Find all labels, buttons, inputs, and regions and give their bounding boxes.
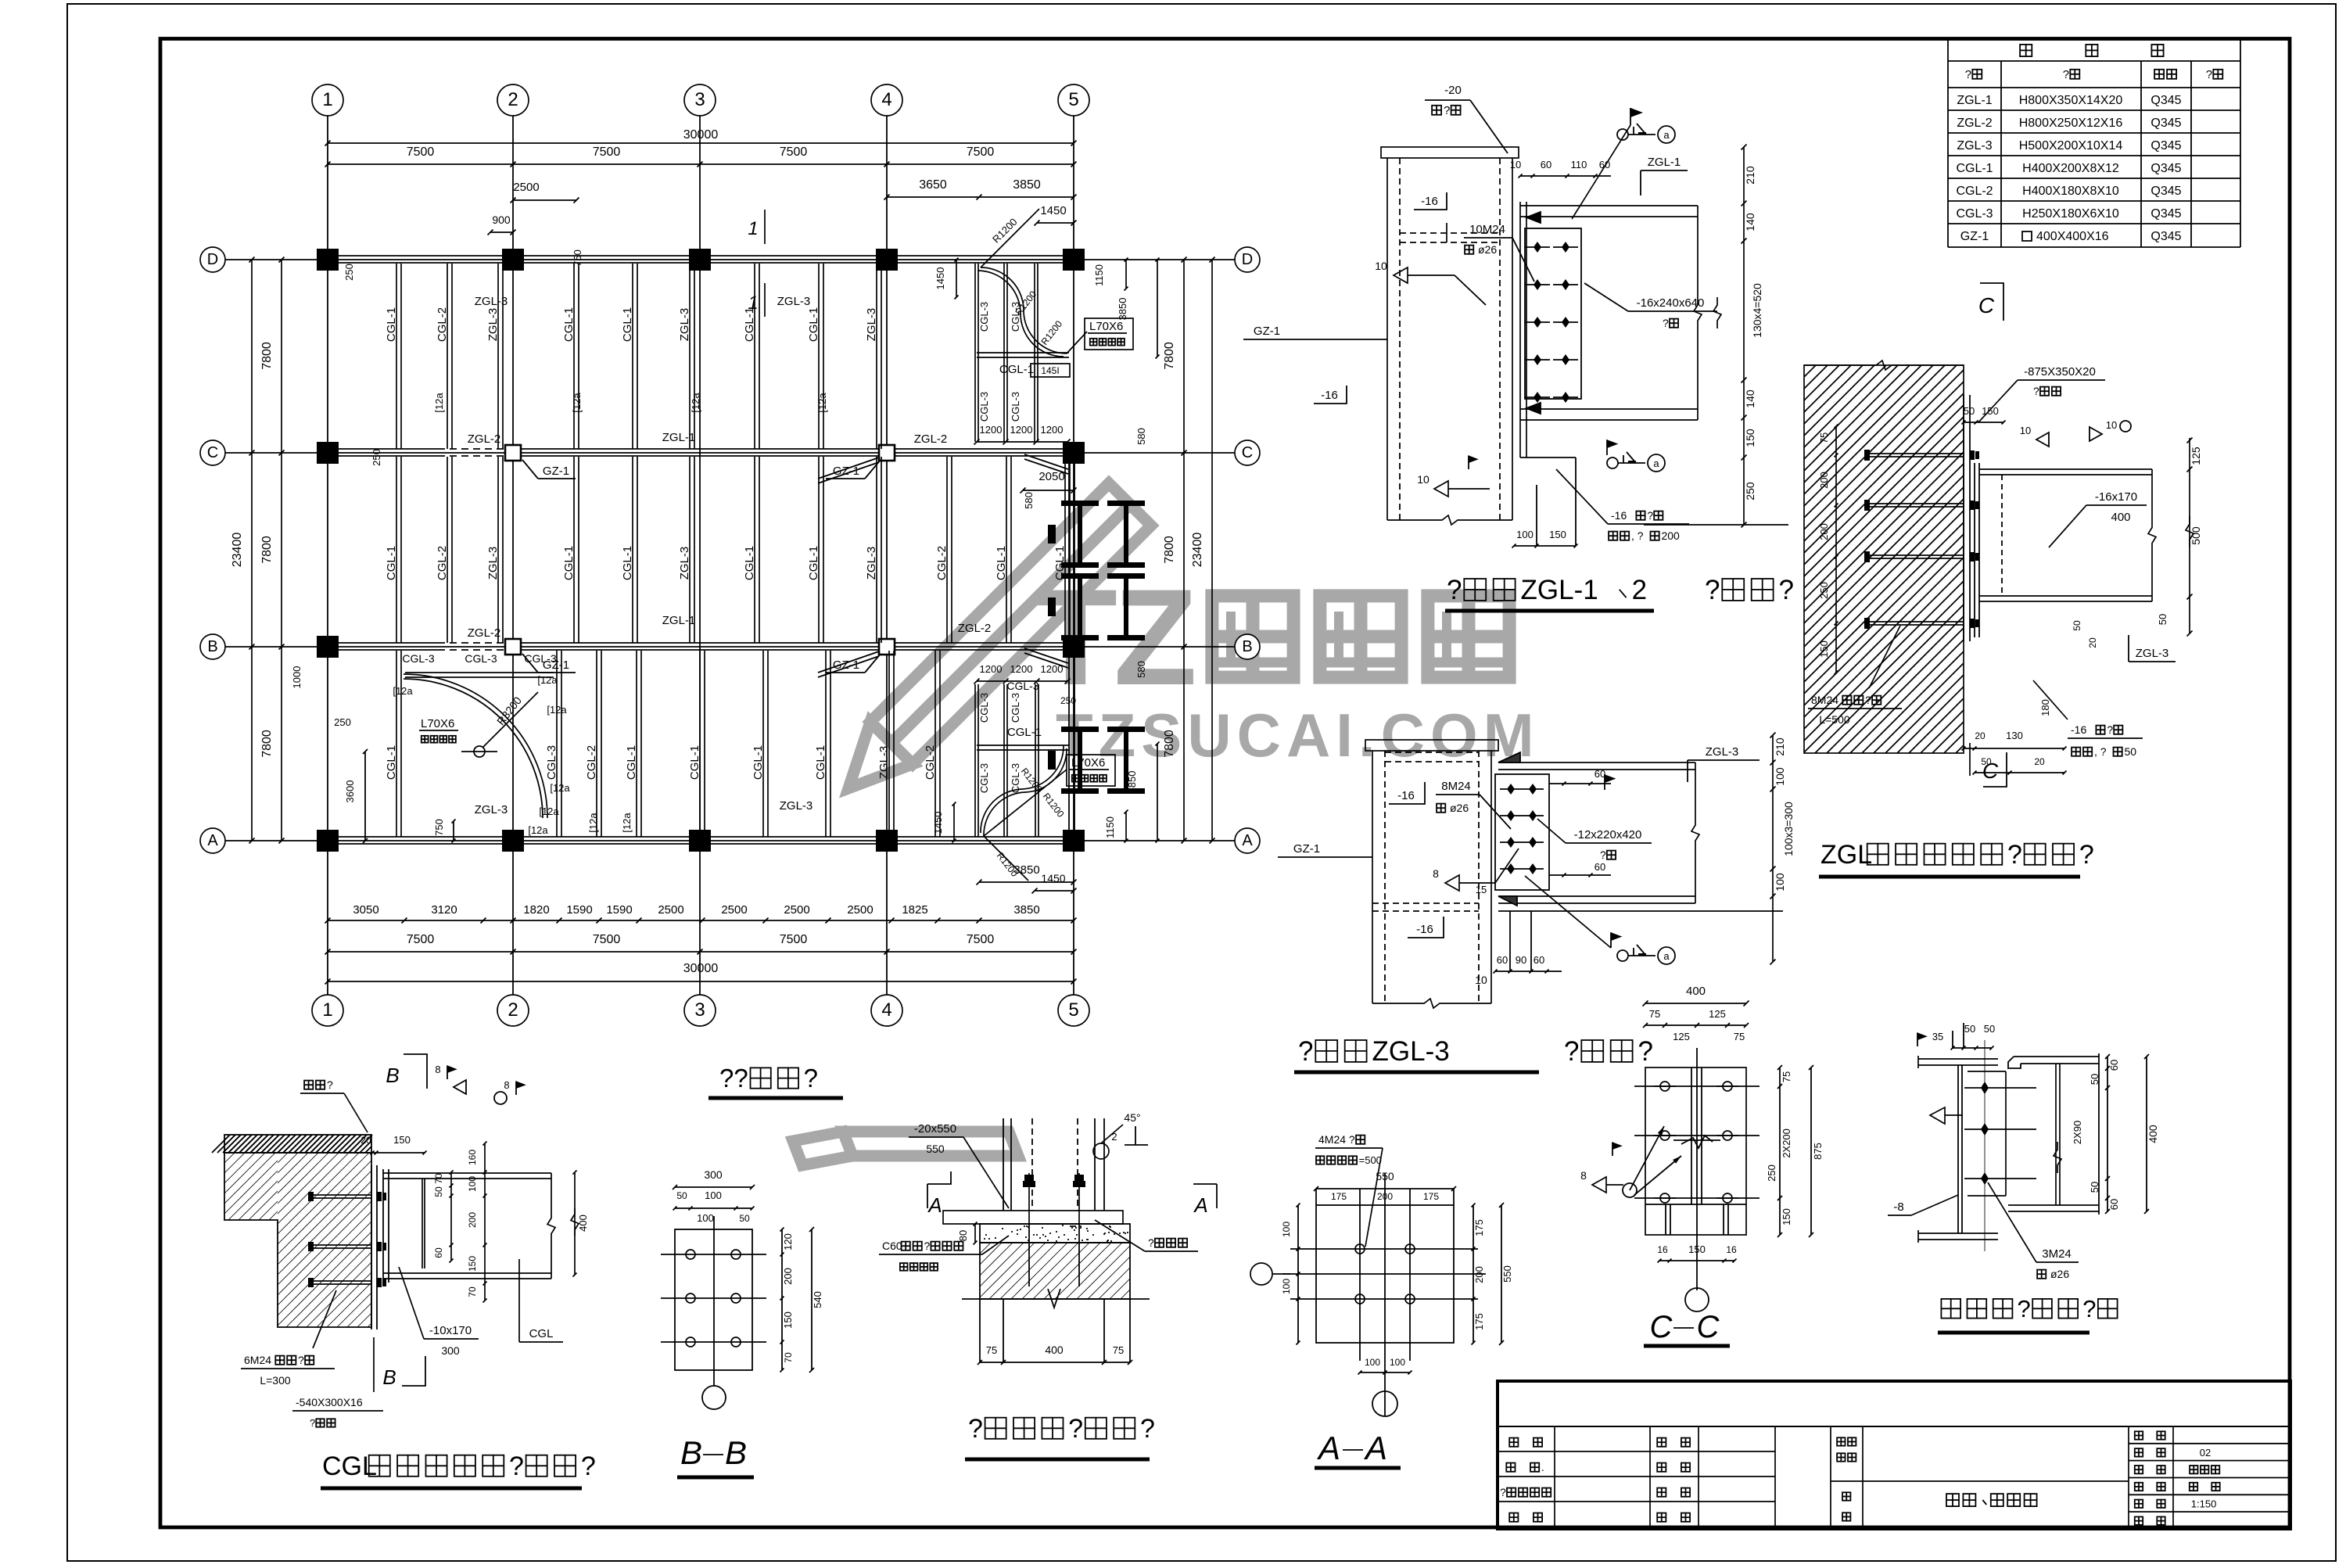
right edge connecting lines [1068, 457, 1070, 837]
D9 bolts [1355, 1244, 1365, 1254]
D9 bottom dims 100 100 [1360, 1372, 1410, 1373]
svg-text:200: 200 [467, 1212, 478, 1228]
svg-text:50: 50 [2072, 620, 2082, 631]
bottom dims 7500 [328, 951, 1074, 953]
title block drawing name [1946, 1494, 1959, 1506]
svg-text:-875X350X20: -875X350X20 [2024, 365, 2096, 379]
axis bubbles bottom 1-5 [312, 995, 343, 1026]
svg-text:CGL-3: CGL-3 [1956, 207, 1993, 221]
svg-text:1825: 1825 [902, 903, 927, 917]
svg-text:60: 60 [2108, 1060, 2120, 1071]
svg-text:ø26: ø26 [2050, 1268, 2069, 1280]
svg-text:-16: -16 [1416, 923, 1433, 936]
svg-text:ZGL-3: ZGL-3 [1957, 139, 1992, 152]
svg-text:A: A [1316, 1430, 1340, 1466]
svg-text:CGL-1: CGL-1 [752, 745, 765, 780]
svg-text:2: 2 [1632, 575, 1647, 605]
D9 right dims [1473, 1205, 1474, 1343]
svg-text:?: ? [2033, 385, 2039, 397]
svg-text:3050: 3050 [353, 903, 378, 917]
svg-text:1200: 1200 [1041, 424, 1064, 436]
svg-text:ZGL-2: ZGL-2 [914, 432, 948, 446]
watermark logo pencil [793, 483, 1151, 1165]
svg-text:CGL-2: CGL-2 [935, 546, 949, 580]
svg-text:CGL-1: CGL-1 [807, 307, 820, 342]
D1 top small dims [1520, 175, 1611, 177]
D5 main beam bottom flange [1918, 1233, 1998, 1234]
svg-text:2: 2 [508, 999, 518, 1021]
D3 concrete column hatched [1804, 365, 1964, 753]
D6 anchor bolts [313, 1194, 371, 1196]
D5 weld flag top [1917, 1032, 1918, 1046]
svg-text:?: ? [298, 1354, 304, 1366]
svg-text:8: 8 [1433, 867, 1439, 880]
D6 dim 400 [574, 1172, 576, 1275]
svg-text:110: 110 [1571, 159, 1587, 170]
svg-text:-20: -20 [1444, 84, 1462, 97]
svg-text:1200: 1200 [1010, 424, 1033, 436]
D6 labels [304, 1081, 313, 1089]
svg-text:?: ? [327, 1078, 333, 1091]
D2 column body [1372, 751, 1373, 1003]
axis bubbles top 1-5 [312, 84, 343, 116]
svg-text:300: 300 [441, 1344, 460, 1357]
svg-text:ZGL-1: ZGL-1 [1648, 156, 1681, 169]
svg-text:ZGL-2: ZGL-2 [958, 622, 992, 635]
watermark CJK chars [1212, 596, 1293, 677]
svg-text:150: 150 [1982, 405, 1999, 417]
svg-text:7500: 7500 [780, 933, 808, 946]
svg-text:50: 50 [676, 1190, 687, 1201]
svg-text:50: 50 [2124, 745, 2136, 758]
svg-text:10M24: 10M24 [1469, 223, 1505, 236]
svg-text:20: 20 [2087, 637, 2098, 648]
svg-text:7800: 7800 [260, 342, 274, 370]
svg-text:CGL-3: CGL-3 [545, 745, 558, 780]
svg-text:150: 150 [782, 1311, 794, 1329]
svg-text:7800: 7800 [1163, 342, 1176, 370]
dims 1200x3 upper [977, 441, 1067, 443]
D9 bottom circle [1372, 1391, 1397, 1416]
D9 axis lines [1384, 1173, 1386, 1416]
D1 weld flag top [1630, 108, 1631, 125]
D8 bolts into concrete [1028, 1224, 1030, 1286]
svg-text:?: ? [2018, 1295, 2031, 1322]
svg-text:R1200: R1200 [1038, 318, 1064, 347]
svg-text:1: 1 [748, 218, 758, 239]
svg-text:A: A [1363, 1430, 1387, 1466]
svg-text:[12a: [12a [550, 782, 570, 794]
svg-text:580: 580 [1023, 492, 1035, 509]
svg-text:CGL-3: CGL-3 [978, 763, 990, 793]
svg-text:ZGL-3: ZGL-3 [780, 799, 813, 813]
svg-text:GZ-1: GZ-1 [1960, 230, 1989, 243]
svg-text:CGL-2: CGL-2 [585, 745, 598, 780]
svg-text:CGL-1: CGL-1 [999, 363, 1034, 376]
svg-text:ZGL-1: ZGL-1 [1957, 94, 1992, 107]
svg-text:100: 100 [1281, 1279, 1292, 1294]
svg-text:[12a: [12a [528, 824, 548, 836]
svg-text:[12a: [12a [690, 393, 701, 413]
svg-text:D: D [1242, 251, 1253, 268]
svg-text:?: ? [1779, 575, 1794, 605]
svg-text:-20x550: -20x550 [914, 1122, 956, 1136]
D2 splice plate [1495, 774, 1549, 890]
svg-text:20: 20 [361, 1135, 371, 1146]
svg-text:, ?: , ? [1631, 529, 1644, 542]
title block middle cols [1830, 1426, 1831, 1529]
svg-text:02: 02 [2200, 1447, 2211, 1459]
svg-text:1450: 1450 [932, 812, 944, 834]
svg-text:2500: 2500 [847, 903, 873, 917]
D7 bolts [686, 1250, 695, 1259]
svg-text:A: A [1193, 1193, 1207, 1217]
svg-text:L70X6: L70X6 [1071, 756, 1105, 770]
svg-text:200: 200 [1377, 1191, 1393, 1202]
svg-text:1150: 1150 [1104, 816, 1116, 838]
svg-text:250: 250 [343, 264, 355, 281]
svg-text:90: 90 [1516, 954, 1526, 966]
svg-text:C: C [207, 444, 218, 461]
D2 weld flag bottom right [1610, 932, 1612, 948]
material table [1947, 40, 1949, 247]
svg-text:7800: 7800 [260, 730, 274, 758]
svg-text:A: A [1242, 832, 1253, 849]
title block outer [1498, 1381, 2290, 1529]
svg-text:200: 200 [1818, 472, 1830, 489]
right edge I columns [1061, 501, 1099, 506]
CGL-3 stub beam under row B left bay [405, 672, 554, 673]
svg-text:CGL-1: CGL-1 [562, 546, 576, 580]
svg-text:D: D [207, 251, 218, 268]
D1 column cap plate [1381, 147, 1519, 158]
D5 secondary beam web [2055, 1064, 2057, 1205]
svg-text:140: 140 [1744, 389, 1756, 408]
svg-text:175: 175 [1331, 1191, 1347, 1202]
svg-text:?: ? [1600, 849, 1606, 861]
D3 dims bottom [1969, 743, 1971, 776]
axis bubbles right D C B A [1235, 247, 1260, 272]
svg-text:C: C [1650, 1310, 1673, 1344]
top dim 30000 [328, 142, 1074, 144]
D6 finish hatch layer [224, 1135, 371, 1153]
D8 dim 80 [974, 1224, 976, 1243]
svg-text:ZGL: ZGL [1820, 840, 1872, 870]
svg-text:1150: 1150 [1093, 264, 1105, 286]
svg-text:-16x240x640: -16x240x640 [1637, 296, 1705, 310]
svg-text:1450: 1450 [934, 267, 946, 290]
svg-text:C: C [1697, 1310, 1720, 1344]
D8 concrete block [980, 1243, 1130, 1299]
svg-text:[12a: [12a [433, 393, 445, 413]
svg-text:CGL-1: CGL-1 [1956, 162, 1993, 175]
D2 weld hatch marks [1498, 752, 1520, 762]
D5 top dims 35 50 50 [1953, 1047, 1992, 1049]
svg-text:ZGL-3: ZGL-3 [1372, 1036, 1450, 1067]
svg-text:7500: 7500 [593, 933, 621, 946]
svg-text:CGL-3: CGL-3 [1010, 302, 1021, 332]
svg-text:75: 75 [1113, 1344, 1124, 1356]
svg-text:H400X200X8X12: H400X200X8X12 [2022, 162, 2119, 175]
svg-text:[12a: [12a [816, 393, 828, 413]
dim 3600 vertical [364, 752, 366, 841]
svg-text:50: 50 [433, 1186, 444, 1197]
D5 cleat angle [1968, 1071, 2006, 1072]
svg-text:140: 140 [1744, 213, 1756, 231]
D4 bottom circle [1685, 1288, 1709, 1311]
svg-text:5: 5 [1068, 999, 1078, 1021]
D2 stiffener dashed upper [1385, 752, 1479, 753]
svg-text:?: ? [1638, 1036, 1653, 1067]
svg-text:ZGL-3: ZGL-3 [877, 746, 891, 780]
svg-text:75: 75 [1781, 1071, 1792, 1082]
S curve bottom-right [984, 748, 1067, 836]
svg-text:250: 250 [1766, 1164, 1777, 1182]
svg-text:3120: 3120 [431, 903, 457, 917]
D5 secondary beam bottom flange [2008, 1204, 2099, 1206]
title block top band line [1498, 1426, 2290, 1427]
D4 bottom dims [1659, 1260, 1734, 1261]
svg-text:1000: 1000 [291, 666, 303, 689]
svg-text:100: 100 [1774, 873, 1786, 892]
D3 break top [1804, 361, 1964, 370]
D4 inner web lines [1691, 1067, 1692, 1204]
top dim 2500 [513, 199, 576, 201]
svg-text:CGL-1: CGL-1 [743, 546, 756, 580]
svg-text:210: 210 [1744, 166, 1756, 185]
svg-text:ZGL-3: ZGL-3 [865, 547, 878, 580]
D4 break sym [1681, 1136, 1713, 1148]
svg-text:CGL-3: CGL-3 [1010, 392, 1021, 422]
svg-text:75: 75 [986, 1344, 997, 1356]
bottom dim 30000 [328, 981, 1074, 982]
svg-text:1450: 1450 [1040, 204, 1066, 217]
svg-text:2X90: 2X90 [2072, 1121, 2083, 1144]
top dim 900 [490, 231, 513, 233]
svg-text:?: ? [1500, 1486, 1506, 1498]
ZGL-2 dashed beam segments near axis2 [438, 447, 505, 460]
svg-text:R1200: R1200 [990, 216, 1020, 246]
svg-text:1:150: 1:150 [2191, 1498, 2217, 1509]
svg-text:7800: 7800 [1163, 536, 1176, 564]
svg-text:[12a: [12a [621, 813, 633, 833]
svg-text:[12a: [12a [587, 813, 599, 833]
svg-text:ø26: ø26 [1450, 802, 1469, 814]
D5 right dims outer [2146, 1057, 2147, 1211]
svg-text:400: 400 [2147, 1125, 2159, 1143]
svg-text:400: 400 [2111, 511, 2130, 524]
title block left col lines [1554, 1426, 1555, 1529]
svg-text:?: ? [2063, 68, 2069, 81]
svg-text:CGL-3: CGL-3 [465, 652, 497, 665]
svg-text:CGL-1: CGL-1 [807, 546, 820, 580]
svg-text:?: ? [1140, 1414, 1155, 1444]
svg-text:120: 120 [782, 1233, 794, 1250]
svg-text:60: 60 [1594, 861, 1605, 873]
svg-text:130x4=520: 130x4=520 [1751, 283, 1763, 338]
plan arc R3200 [404, 674, 547, 818]
svg-text:-10x170: -10x170 [429, 1324, 472, 1337]
svg-text:30000: 30000 [683, 128, 719, 142]
D8 bottom dims [980, 1362, 1130, 1363]
D9 top dim 550 [1316, 1188, 1454, 1189]
svg-text:ZGL-1: ZGL-1 [1521, 575, 1598, 605]
svg-text:175: 175 [1473, 1313, 1485, 1330]
svg-text:GZ-1: GZ-1 [833, 658, 859, 672]
svg-text:CGL-3: CGL-3 [978, 302, 990, 332]
top dims 3650 3850 [887, 196, 1074, 198]
svg-text:?: ? [1647, 509, 1653, 522]
svg-text:3600: 3600 [344, 780, 356, 803]
svg-text:23400: 23400 [231, 533, 244, 568]
D5 right dims inner [2107, 1057, 2108, 1211]
svg-text:8: 8 [504, 1079, 509, 1091]
svg-text:Q345: Q345 [2150, 117, 2181, 130]
svg-text:ZGL-1: ZGL-1 [662, 614, 696, 627]
D6 beam CGL [383, 1172, 551, 1174]
svg-text:125: 125 [1709, 1008, 1726, 1020]
svg-text:CGL-3: CGL-3 [1006, 680, 1038, 692]
svg-text:70: 70 [433, 1173, 444, 1184]
bottom dim 1450 3850 [979, 881, 1074, 883]
svg-text:875: 875 [1812, 1143, 1824, 1160]
D1 bolts [1534, 242, 1541, 253]
D9 A-A plate square [1316, 1205, 1454, 1343]
svg-text:-16: -16 [1421, 195, 1438, 208]
svg-text:H400X180X8X10: H400X180X8X10 [2022, 185, 2119, 198]
svg-text:200: 200 [1473, 1266, 1485, 1283]
svg-text:175: 175 [1423, 1191, 1439, 1202]
D1 splice plate [1525, 228, 1581, 399]
svg-text:?: ? [509, 1451, 524, 1481]
D8 grout layer dots [980, 1224, 1130, 1243]
svg-text:60: 60 [2108, 1199, 2120, 1210]
svg-text:ZGL-3: ZGL-3 [678, 547, 691, 580]
svg-text:3650: 3650 [919, 178, 947, 192]
svg-text:60: 60 [433, 1247, 444, 1258]
svg-text:100: 100 [705, 1189, 722, 1201]
svg-text:1590: 1590 [566, 903, 592, 917]
GZ-1 small squares [505, 445, 521, 461]
cross beam CGL-1 top-right bay [977, 352, 1069, 353]
svg-text:CGL-1: CGL-1 [385, 307, 398, 342]
svg-text:?: ? [1965, 68, 1971, 81]
svg-text:7800: 7800 [1163, 730, 1176, 758]
S curve top-right [981, 267, 1067, 353]
svg-text:a: a [1653, 457, 1659, 469]
svg-text:50: 50 [1964, 1023, 1975, 1035]
svg-text:ZGL-3: ZGL-3 [486, 547, 500, 580]
svg-text:?: ? [1068, 1414, 1083, 1444]
svg-text:23400: 23400 [1191, 533, 1204, 568]
svg-text:150: 150 [467, 1256, 478, 1272]
svg-text:100: 100 [1774, 767, 1786, 786]
svg-text:Q345: Q345 [2150, 185, 2181, 198]
svg-text:1450: 1450 [1041, 872, 1065, 884]
svg-text:[12a: [12a [537, 674, 558, 686]
D1 column body [1386, 158, 1388, 520]
svg-text:160: 160 [467, 1150, 478, 1165]
svg-text:10: 10 [2020, 425, 2031, 436]
svg-text:150: 150 [1744, 429, 1756, 447]
svg-text:20: 20 [2034, 756, 2045, 767]
svg-text:150: 150 [1549, 529, 1566, 540]
svg-text:60: 60 [1497, 954, 1508, 966]
D6 dims right inner [450, 1172, 452, 1261]
cross beam CGL-1 bottom-right bay [977, 745, 1069, 746]
svg-text:?: ? [924, 1240, 930, 1252]
svg-text:250: 250 [1744, 482, 1756, 501]
svg-text:8: 8 [435, 1064, 440, 1075]
svg-text:ZGL-1: ZGL-1 [662, 431, 696, 444]
svg-text:210: 210 [1774, 737, 1786, 756]
svg-text:150: 150 [393, 1134, 411, 1146]
D3 beam end plate [1974, 463, 1975, 637]
D7 center line [713, 1216, 715, 1386]
svg-text:400: 400 [1686, 985, 1706, 998]
row beams double lines [322, 255, 1082, 257]
svg-text:7500: 7500 [780, 145, 808, 159]
svg-text:10: 10 [1417, 473, 1429, 486]
svg-text:B: B [1242, 638, 1252, 655]
svg-text:CGL-3: CGL-3 [1010, 763, 1021, 793]
D2 weld flag top [1604, 774, 1605, 790]
svg-text:?: ? [1564, 1036, 1579, 1067]
svg-text:75: 75 [1649, 1008, 1660, 1020]
svg-text:50: 50 [2089, 1074, 2100, 1085]
svg-text:200: 200 [1661, 529, 1680, 542]
D3 dims right [2189, 438, 2190, 633]
svg-text:a: a [1663, 950, 1670, 962]
svg-text:-12x220x420: -12x220x420 [1574, 828, 1642, 841]
svg-text:B: B [207, 638, 217, 655]
bottom dims sub [328, 920, 1074, 921]
svg-text:7800: 7800 [260, 536, 274, 564]
D1 weld flag right [1606, 440, 1608, 455]
svg-text:75: 75 [1734, 1031, 1745, 1042]
svg-text:L70X6: L70X6 [1089, 320, 1123, 333]
svg-text:250: 250 [334, 716, 351, 728]
svg-text:L70X6: L70X6 [421, 717, 454, 730]
D1 right dim column [1743, 147, 1745, 525]
svg-text:50: 50 [2089, 1182, 2100, 1193]
svg-text:580: 580 [1135, 661, 1147, 678]
svg-text:CGL-3: CGL-3 [978, 693, 990, 723]
svg-text:2500: 2500 [513, 181, 539, 194]
svg-text:100: 100 [1390, 1357, 1405, 1368]
svg-text:100: 100 [1365, 1357, 1380, 1368]
svg-text:?: ? [2107, 723, 2113, 736]
svg-text:??: ?? [719, 1064, 748, 1093]
svg-text:175: 175 [1473, 1219, 1485, 1236]
svg-text:?: ? [1865, 694, 1871, 706]
svg-text:30000: 30000 [683, 962, 719, 975]
svg-text:ZGL-3: ZGL-3 [486, 308, 500, 342]
svg-text:-16x170: -16x170 [2095, 490, 2137, 504]
svg-text:L=300: L=300 [260, 1374, 291, 1387]
svg-text:ZGL-3: ZGL-3 [865, 308, 878, 342]
svg-text:?: ? [2079, 840, 2094, 870]
D3 anchor bolts [1869, 453, 1964, 454]
svg-text:?: ? [1444, 104, 1450, 117]
svg-text:B: B [680, 1434, 702, 1471]
svg-text:8M24: 8M24 [1441, 780, 1471, 793]
svg-text:Q345: Q345 [2150, 139, 2181, 152]
svg-text:50: 50 [1964, 405, 1975, 417]
svg-text:?: ? [1298, 1036, 1313, 1067]
D6 concrete L block [224, 1153, 371, 1327]
svg-text:100x3=300: 100x3=300 [1782, 802, 1795, 856]
